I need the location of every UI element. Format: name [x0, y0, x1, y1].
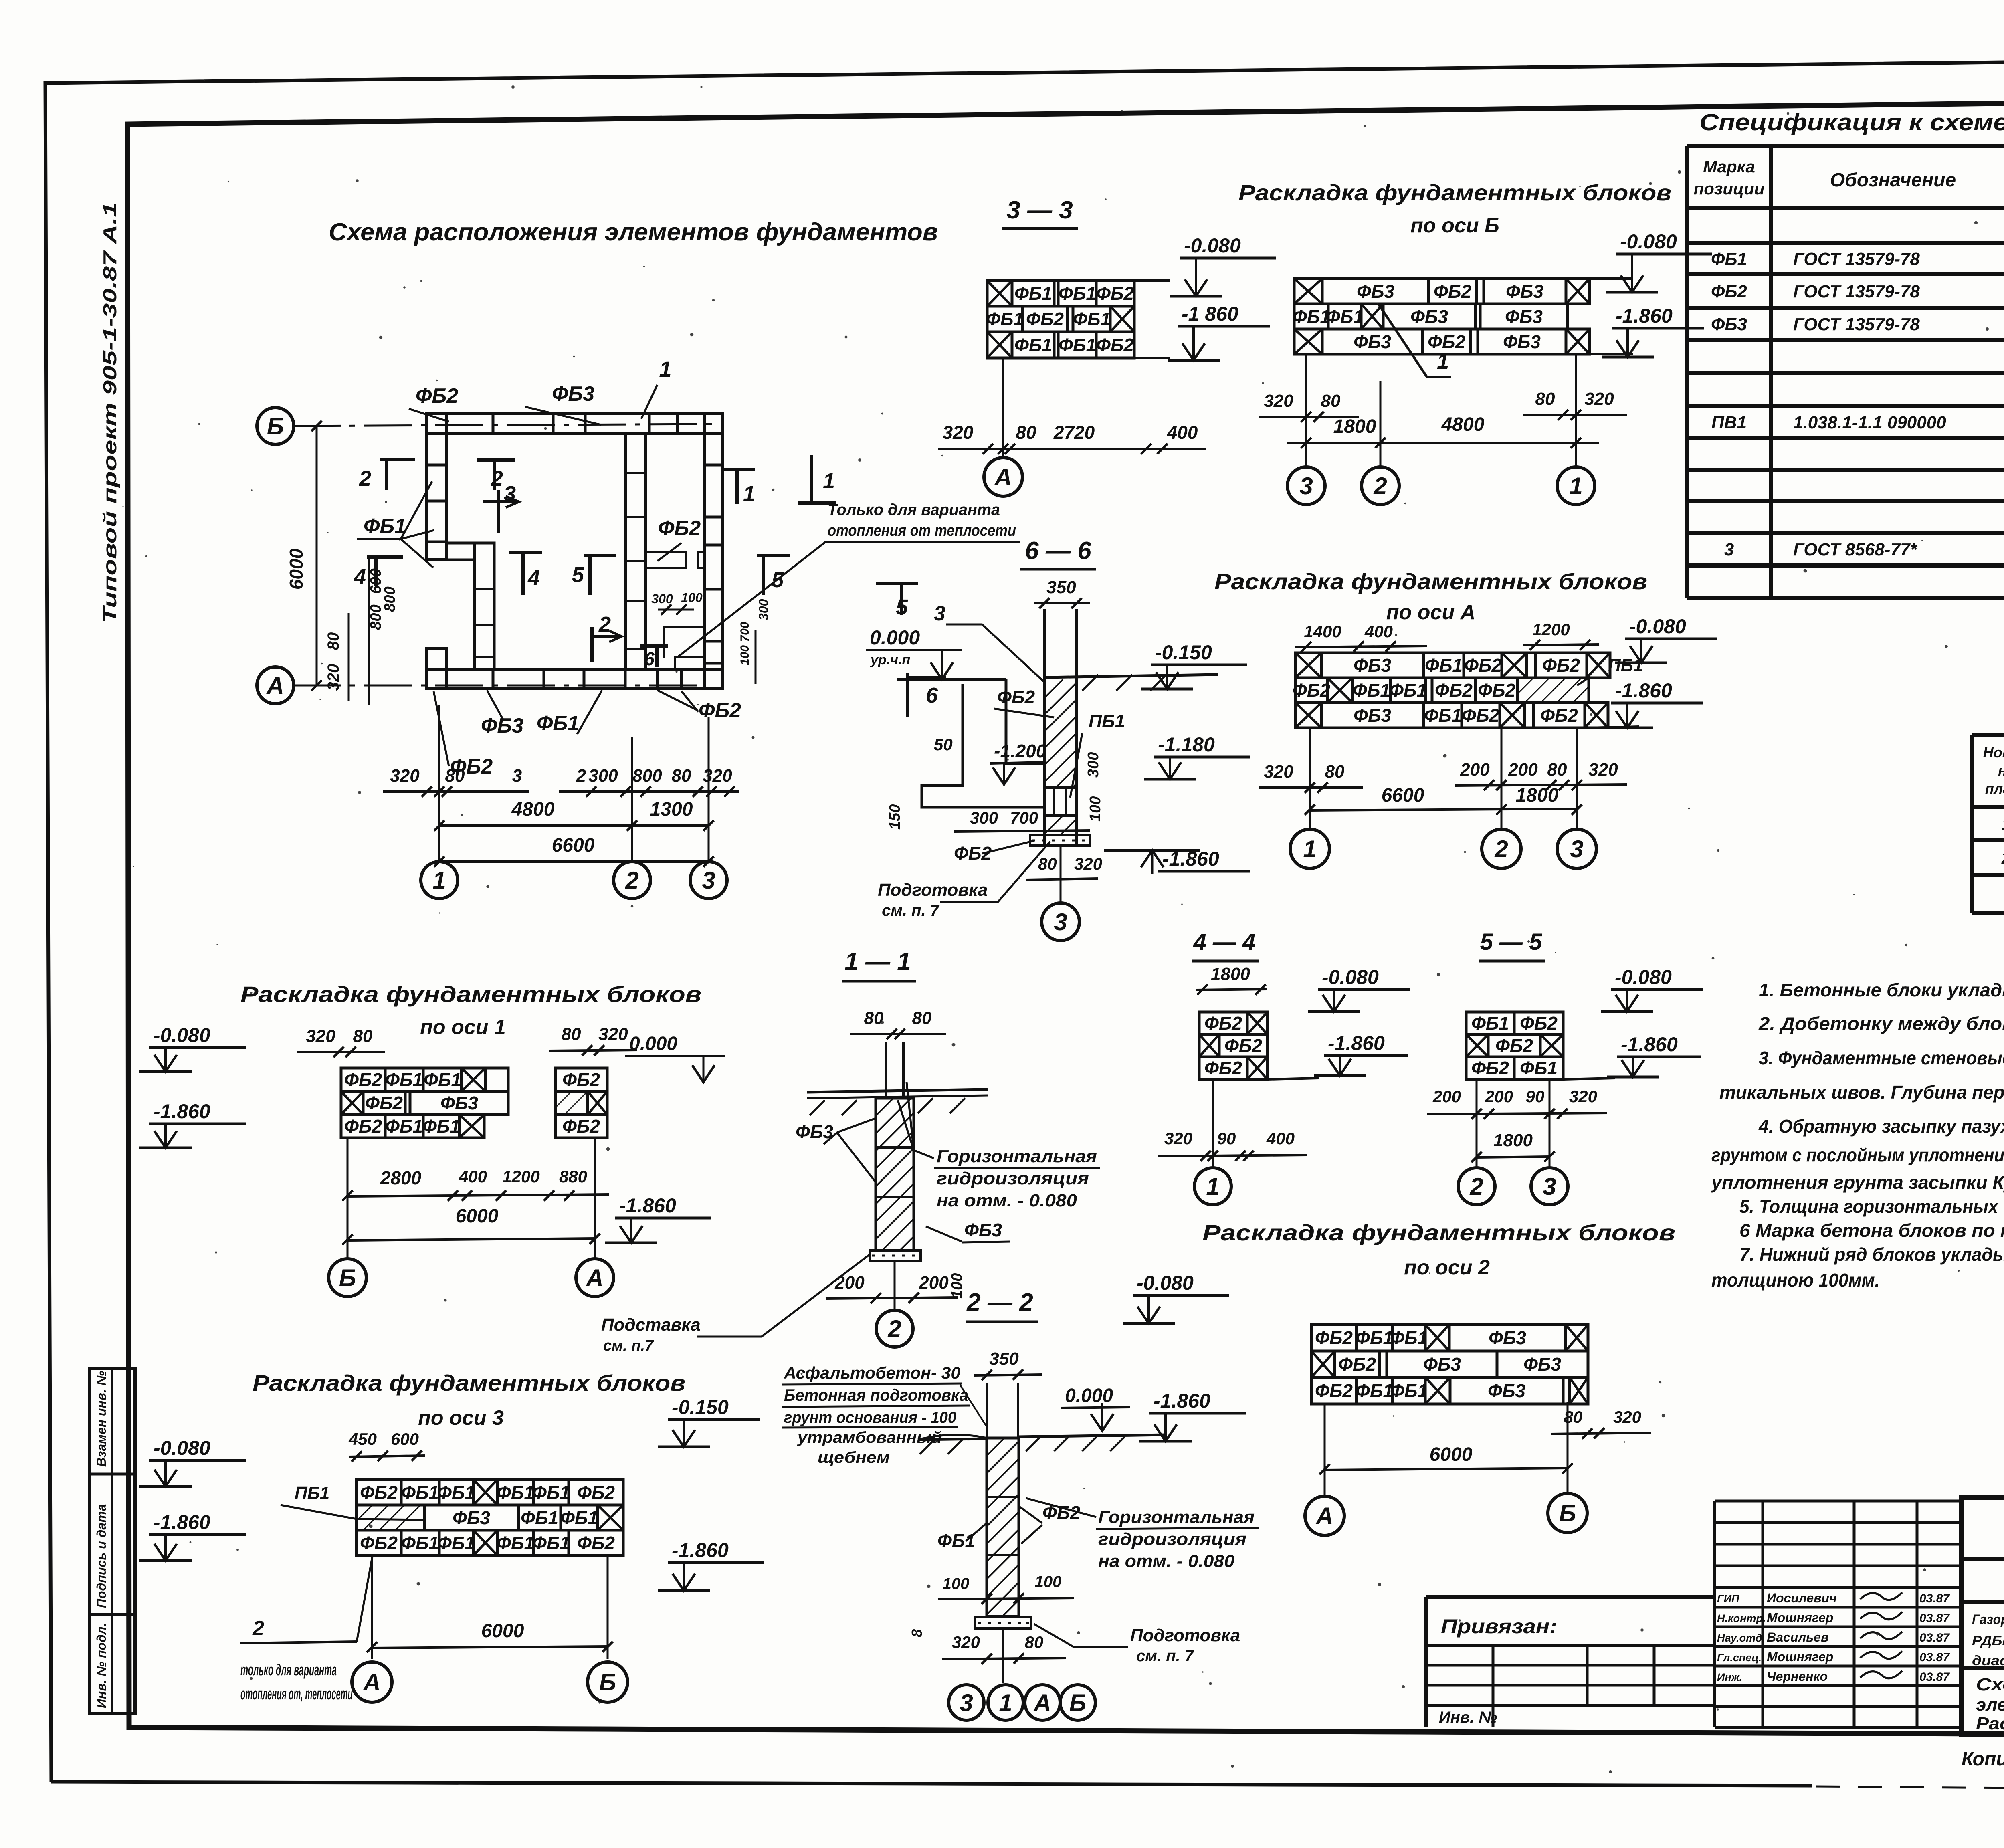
svg-text:Б: Б [267, 413, 284, 440]
svg-text:ФБ1: ФБ1 [437, 1482, 475, 1503]
svg-text:ФБ1: ФБ1 [937, 1530, 975, 1551]
svg-text:300: 300 [970, 808, 998, 827]
svg-text:2: 2 [252, 1617, 264, 1640]
svg-text:2: 2 [491, 467, 503, 491]
svg-text:ФБ2: ФБ2 [1315, 1380, 1353, 1401]
svg-text:1.038.1-1.1 090000: 1.038.1-1.1 090000 [1793, 413, 1946, 432]
svg-text:ФБ1: ФБ1 [1059, 335, 1096, 355]
svg-text:ФБ2: ФБ2 [360, 1482, 398, 1503]
svg-text:ФБ1: ФБ1 [1356, 1380, 1393, 1401]
svg-text:2 — 2: 2 — 2 [966, 1289, 1033, 1316]
svg-text:на отм. - 0.080: на отм. - 0.080 [937, 1191, 1077, 1210]
svg-text:ФБ2: ФБ2 [1434, 281, 1471, 302]
svg-text:Подготовка: Подготовка [878, 880, 988, 900]
svg-text:1: 1 [999, 1689, 1012, 1716]
svg-text:ФБ2: ФБ2 [658, 517, 701, 540]
svg-text:600: 600 [391, 1430, 419, 1448]
svg-text:320: 320 [325, 664, 342, 691]
svg-text:200: 200 [1432, 1087, 1461, 1106]
svg-text:Раскладка фундаментных блоков: Раскладка фундаментных блоков [1214, 569, 1647, 594]
svg-text:3: 3 [1299, 473, 1313, 499]
svg-text:80: 80 [1535, 389, 1555, 409]
svg-text:ФБ2: ФБ2 [562, 1069, 600, 1090]
svg-text:03.87: 03.87 [1919, 1631, 1950, 1644]
svg-text:-1.860: -1.860 [1154, 1390, 1210, 1412]
svg-text:Б: Б [1069, 1689, 1086, 1716]
svg-text:см. п. 7: см. п. 7 [882, 902, 940, 919]
svg-text:Обозначение: Обозначение [1830, 170, 1956, 191]
svg-text:ФБ2: ФБ2 [1542, 655, 1580, 676]
svg-text:80: 80 [912, 1008, 932, 1028]
svg-text:Мошнягер: Мошнягер [1767, 1610, 1833, 1625]
svg-text:5 — 5: 5 — 5 [1480, 929, 1542, 955]
svg-text:ФБ2: ФБ2 [1096, 335, 1134, 355]
svg-text:ФБ3: ФБ3 [1505, 306, 1543, 327]
svg-text:1: 1 [432, 867, 446, 894]
svg-text:0.000: 0.000 [870, 626, 920, 649]
svg-text:ПБ1: ПБ1 [1608, 656, 1643, 675]
svg-text:100: 100 [1035, 1573, 1062, 1591]
svg-text:320: 320 [306, 1026, 335, 1046]
svg-text:ФБ3: ФБ3 [1354, 331, 1391, 352]
svg-text:РДБК-1-100 С учетом расхода га: РДБК-1-100 С учетом расхода газа [1972, 1633, 2004, 1648]
svg-text:Инв. № подл.: Инв. № подл. [94, 1623, 109, 1708]
svg-text:Раскладка фундаментных блоков: Раскладка фундаментных блоков [253, 1370, 685, 1396]
svg-text:3: 3 [1543, 1173, 1556, 1200]
svg-text:-1 860: -1 860 [1182, 303, 1238, 325]
svg-text:ФБ3: ФБ3 [1523, 1354, 1561, 1375]
svg-text:по оси Б: по оси Б [1410, 214, 1499, 237]
svg-text:3 — 3: 3 — 3 [1006, 196, 1073, 224]
svg-text:ФБ2: ФБ2 [344, 1116, 382, 1137]
svg-text:4: 4 [527, 566, 540, 590]
svg-text:80: 80 [445, 766, 465, 786]
svg-text:ФБ2: ФБ2 [1224, 1035, 1262, 1056]
svg-text:3: 3 [960, 1689, 973, 1716]
svg-text:6 Марка бетона блоков по моро: 6 Марка бетона блоков по морозостойкости… [1739, 1220, 2004, 1241]
svg-text:6000: 6000 [1430, 1444, 1473, 1465]
svg-text:ФБ2: ФБ2 [1204, 1058, 1242, 1079]
svg-text:320: 320 [1264, 762, 1293, 782]
svg-text:тикальных швов. Глубина перевя: тикальных швов. Глубина перевязки - не м… [1719, 1082, 2004, 1103]
svg-text:-0.080: -0.080 [154, 1437, 210, 1459]
svg-text:ФБ1: ФБ1 [1073, 309, 1111, 329]
svg-text:ФБ1: ФБ1 [401, 1533, 439, 1553]
svg-text:1: 1 [823, 469, 835, 493]
svg-text:ФБ1: ФБ1 [1389, 680, 1427, 701]
svg-text:5. Толщина горизонтальных швов: 5. Толщина горизонтальных швов должна бы… [1739, 1196, 2004, 1217]
svg-text:320: 320 [1074, 854, 1102, 873]
svg-text:ПБ1: ПБ1 [1089, 711, 1125, 731]
svg-text:ФБ3: ФБ3 [1489, 1327, 1526, 1348]
svg-text:ФБ3: ФБ3 [552, 382, 594, 406]
svg-text:ФБ1: ФБ1 [1425, 655, 1463, 676]
svg-text:отопления от, теплосети: отопления от, теплосети [240, 1685, 353, 1703]
svg-text:Марка: Марка [1703, 157, 1755, 176]
svg-text:Бетонная подготовка: Бетонная подготовка [784, 1385, 968, 1404]
svg-text:ФБ3: ФБ3 [1423, 1354, 1461, 1375]
svg-text:5: 5 [572, 563, 584, 587]
svg-text:2: 2 [1469, 1173, 1483, 1200]
svg-text:ФБ2: ФБ2 [1495, 1035, 1533, 1056]
svg-text:320: 320 [1569, 1087, 1597, 1106]
svg-text:2800: 2800 [380, 1167, 422, 1188]
svg-text:диафрагмой (стены панельные): диафрагмой (стены панельные) [1972, 1653, 2004, 1668]
svg-text:320: 320 [952, 1633, 980, 1652]
svg-text:320: 320 [390, 766, 420, 786]
svg-text:-0.080: -0.080 [154, 1024, 210, 1046]
svg-text:150: 150 [887, 804, 903, 830]
svg-text:3: 3 [934, 602, 945, 625]
svg-text:4. Обратную засыпку пазух фунд: 4. Обратную засыпку пазух фундаментов пр… [1758, 1116, 2004, 1137]
svg-text:2. Добетонку между блоками про: 2. Добетонку между блоками производить и… [1758, 1013, 2004, 1034]
svg-text:80: 80 [672, 766, 691, 786]
svg-text:ФБ3: ФБ3 [1354, 705, 1391, 726]
svg-text:по оси 1: по оси 1 [420, 1016, 506, 1039]
svg-text:ФБ1: ФБ1 [537, 712, 579, 735]
svg-text:-0.080: -0.080 [1322, 966, 1379, 988]
svg-text:1 — 1: 1 — 1 [844, 948, 911, 976]
svg-text:-1.860: -1.860 [154, 1100, 210, 1123]
svg-text:ур.ч.п: ур.ч.п [870, 652, 910, 668]
svg-text:Н.контр.: Н.контр. [1717, 1612, 1766, 1624]
svg-text:ФБ2: ФБ2 [577, 1533, 615, 1553]
svg-text:ГОСТ 13579-78: ГОСТ 13579-78 [1793, 282, 1920, 301]
svg-text:Спецификация к схеме расположе: Спецификация к схеме расположения фундам… [1699, 109, 2004, 135]
svg-text:ГОСТ 13579-78: ГОСТ 13579-78 [1793, 249, 1920, 269]
svg-text:-1.860: -1.860 [672, 1539, 729, 1561]
svg-text:по оси 3: по оси 3 [418, 1406, 504, 1430]
svg-text:элементов фундаментов: элементов фундаментов [1976, 1695, 2004, 1715]
svg-text:2: 2 [887, 1315, 901, 1342]
svg-text:ФБ1: ФБ1 [986, 309, 1024, 329]
svg-text:1200: 1200 [502, 1167, 539, 1186]
svg-text:300: 300 [651, 592, 673, 606]
svg-text:50: 50 [934, 735, 953, 754]
svg-text:Б: Б [1559, 1500, 1576, 1527]
svg-text:гидроизоляция: гидроизоляция [937, 1169, 1089, 1188]
svg-text:ФБ1: ФБ1 [1471, 1013, 1509, 1034]
svg-text:ФБ1: ФБ1 [560, 1507, 598, 1528]
svg-text:1800: 1800 [1493, 1131, 1533, 1150]
svg-text:80: 80 [353, 1026, 373, 1046]
svg-text:450: 450 [348, 1430, 377, 1448]
svg-text:200: 200 [834, 1273, 865, 1293]
svg-text:ФБ1: ФБ1 [1326, 306, 1364, 327]
svg-text:350: 350 [1046, 578, 1076, 597]
svg-text:Нау.отд.: Нау.отд. [1717, 1632, 1765, 1644]
svg-text:ФБ2: ФБ2 [1462, 705, 1499, 726]
svg-text:ФБ3: ФБ3 [1410, 306, 1448, 327]
svg-text:Васильев: Васильев [1767, 1630, 1828, 1644]
svg-text:1300: 1300 [650, 799, 693, 820]
svg-text:2: 2 [598, 612, 611, 636]
svg-text:-1.200: -1.200 [994, 741, 1046, 761]
svg-text:400: 400 [459, 1167, 487, 1186]
svg-text:А: А [362, 1669, 380, 1696]
svg-text:ФБ1: ФБ1 [1059, 283, 1096, 304]
svg-text:2: 2 [625, 867, 638, 894]
svg-text:ФБ1: ФБ1 [385, 1069, 423, 1090]
svg-text:Инв. №: Инв. № [1439, 1709, 1497, 1726]
svg-text:А: А [1315, 1503, 1333, 1529]
svg-text:350: 350 [989, 1349, 1019, 1369]
svg-text:8: 8 [909, 1629, 925, 1637]
svg-text:6000: 6000 [456, 1206, 499, 1227]
svg-text:800: 800 [382, 586, 398, 612]
svg-text:2720: 2720 [1053, 422, 1095, 443]
svg-text:Инж.: Инж. [1717, 1671, 1742, 1683]
svg-text:ФБ2: ФБ2 [1540, 705, 1578, 726]
svg-text:320: 320 [1264, 391, 1293, 411]
svg-text:ФБ2: ФБ2 [562, 1116, 600, 1137]
svg-text:320: 320 [1588, 760, 1618, 780]
svg-text:200: 200 [1460, 760, 1490, 780]
svg-text:ФБ1: ФБ1 [1014, 283, 1052, 304]
svg-text:ФБ3: ФБ3 [796, 1121, 833, 1142]
svg-text:А: А [266, 672, 284, 699]
svg-text:только для варианта: только для варианта [240, 1661, 337, 1679]
svg-text:300: 300 [756, 599, 771, 620]
svg-text:по оси А: по оси А [1386, 601, 1475, 624]
svg-text:-0.150: -0.150 [1155, 641, 1212, 664]
svg-text:200: 200 [1485, 1087, 1513, 1106]
svg-text:4: 4 [354, 565, 366, 589]
svg-text:ФБ3: ФБ3 [1488, 1380, 1525, 1401]
svg-text:ФБ2: ФБ2 [416, 384, 458, 408]
svg-text:1: 1 [1206, 1173, 1219, 1200]
svg-text:1. Бетонные блоки укладывать: 1. Бетонные блоки укладывать на цементно… [1759, 980, 2004, 1000]
svg-text:100: 100 [949, 1273, 966, 1299]
svg-text:ФБ2: ФБ2 [1471, 1058, 1509, 1079]
svg-text:ФБ2: ФБ2 [577, 1482, 615, 1503]
svg-text:-1.860: -1.860 [1328, 1032, 1385, 1054]
svg-text:Асфальтобетон- 30: Асфальтобетон- 30 [784, 1363, 960, 1382]
svg-text:100: 100 [1087, 796, 1104, 822]
svg-text:6000: 6000 [481, 1620, 524, 1642]
svg-text:-0.080: -0.080 [1615, 966, 1672, 988]
svg-text:ФБ3: ФБ3 [1506, 281, 1543, 302]
svg-text:ФБ2: ФБ2 [1096, 283, 1134, 304]
svg-text:ФБ2: ФБ2 [1464, 655, 1502, 676]
svg-text:6 — 6: 6 — 6 [1025, 537, 1091, 565]
svg-text:ФБ2: ФБ2 [1204, 1013, 1242, 1034]
svg-text:Номер: Номер [1983, 744, 2004, 761]
svg-text:ФБ1: ФБ1 [521, 1507, 558, 1528]
svg-text:на: на [1998, 762, 2004, 779]
svg-text:03.87: 03.87 [1919, 1651, 1950, 1664]
svg-text:100: 100 [943, 1575, 970, 1593]
svg-text:на отм. - 0.080: на отм. - 0.080 [1098, 1551, 1235, 1571]
svg-text:6600: 6600 [552, 835, 595, 856]
svg-text:1800: 1800 [1333, 416, 1376, 437]
svg-text:Горизонтальная: Горизонтальная [1098, 1507, 1255, 1527]
svg-text:03.87: 03.87 [1919, 1670, 1950, 1684]
svg-text:ФБ1: ФБ1 [424, 1069, 461, 1090]
svg-text:800: 800 [632, 766, 662, 786]
svg-text:Гл.спец.: Гл.спец. [1717, 1652, 1762, 1664]
svg-text:Раскладка фундаментных блоков: Раскладка фундаментных блоков [1238, 180, 1671, 205]
svg-text:ФБ2: ФБ2 [699, 699, 741, 722]
svg-text:1800: 1800 [1211, 964, 1250, 984]
svg-text:Мошнягер: Мошнягер [1767, 1650, 1833, 1664]
svg-text:ФБ2: ФБ2 [1338, 1354, 1376, 1375]
svg-text:90: 90 [1526, 1087, 1545, 1106]
svg-text:7. Нижний ряд блоков укладыват: 7. Нижний ряд блоков укладывать на уплот… [1739, 1244, 2004, 1265]
svg-text:-1.180: -1.180 [1158, 733, 1215, 756]
svg-text:3: 3 [1724, 540, 1734, 559]
svg-text:ФБ1: ФБ1 [532, 1533, 570, 1553]
svg-text:ПБ1: ПБ1 [295, 1483, 329, 1503]
svg-text:400: 400 [1266, 1129, 1295, 1148]
svg-text:1200: 1200 [1532, 620, 1570, 639]
svg-text:320: 320 [1613, 1408, 1641, 1426]
svg-text:Черненко: Черненко [1767, 1669, 1828, 1684]
svg-text:4 — 4: 4 — 4 [1193, 929, 1256, 955]
svg-text:1400: 1400 [1304, 622, 1341, 641]
svg-text:-1.860: -1.860 [1616, 305, 1673, 327]
svg-text:2: 2 [1373, 473, 1387, 499]
svg-text:ФБ1: ФБ1 [401, 1482, 439, 1503]
svg-text:Подпись и дата: Подпись и дата [94, 1504, 109, 1608]
svg-text:-0.080: -0.080 [1184, 234, 1241, 257]
svg-text:1: 1 [743, 482, 755, 506]
svg-text:ФБ2: ФБ2 [1026, 309, 1064, 329]
svg-text:утрамбованный: утрамбованный [797, 1429, 942, 1446]
svg-text:200: 200 [1508, 760, 1538, 780]
svg-text:ФБ1: ФБ1 [1356, 1327, 1393, 1348]
svg-text:Горизонтальная: Горизонтальная [937, 1147, 1097, 1166]
svg-text:Привязан:: Привязан: [1441, 1615, 1557, 1638]
svg-text:ФБ1: ФБ1 [1014, 335, 1052, 355]
svg-text:гидроизоляция: гидроизоляция [1098, 1529, 1246, 1549]
svg-text:ГОСТ 8568-77*: ГОСТ 8568-77* [1793, 540, 1917, 559]
svg-text:300: 300 [588, 766, 618, 786]
svg-text:-1.860: -1.860 [1162, 848, 1219, 870]
svg-text:-0.150: -0.150 [672, 1396, 729, 1418]
svg-text:ФБ1: ФБ1 [497, 1482, 534, 1503]
svg-text:-1.860: -1.860 [1615, 679, 1672, 702]
svg-text:90: 90 [1217, 1129, 1236, 1148]
svg-text:А: А [994, 464, 1012, 491]
svg-text:80: 80 [1016, 422, 1036, 443]
svg-text:2: 2 [2001, 848, 2004, 868]
svg-text:320: 320 [943, 422, 974, 443]
svg-text:100 700: 100 700 [738, 622, 751, 665]
svg-text:1800: 1800 [1516, 785, 1559, 806]
svg-text:1: 1 [1569, 473, 1582, 499]
svg-text:ФБ2: ФБ2 [360, 1533, 398, 1553]
svg-text:Только для варианта: Только для варианта [828, 501, 1000, 519]
svg-text:Раскладка фундаментных блоков: Раскладка фундаментных блоков [240, 982, 701, 1007]
svg-text:6000: 6000 [286, 548, 307, 590]
svg-text:1: 1 [1303, 836, 1316, 862]
svg-text:толщиною 100мм.: толщиною 100мм. [1711, 1270, 1880, 1291]
svg-text:Типовой проект 905-1-30.87 А.: Типовой проект 905-1-30.87 А.1 [99, 202, 120, 623]
svg-text:Газорегуляторный пункт с регул: Газорегуляторный пункт с регулятором [1972, 1612, 2004, 1627]
svg-text:Копировал: Радец: Копировал: Радец [1962, 1749, 2004, 1770]
svg-text:Подготовка: Подготовка [1130, 1626, 1240, 1645]
svg-text:2: 2 [359, 467, 371, 491]
svg-text:ФБ1: ФБ1 [1424, 705, 1462, 726]
svg-text:ФБ1: ФБ1 [1293, 306, 1330, 327]
svg-text:320: 320 [703, 766, 732, 786]
svg-text:ФБ2: ФБ2 [1315, 1327, 1353, 1348]
svg-text:Б: Б [339, 1264, 356, 1291]
svg-text:Иосилевич: Иосилевич [1767, 1591, 1837, 1605]
svg-text:-1.860: -1.860 [1621, 1033, 1678, 1056]
svg-text:4800: 4800 [511, 799, 555, 820]
svg-text:ФБ2: ФБ2 [1478, 680, 1515, 701]
svg-text:по оси 2: по оси 2 [1404, 1256, 1490, 1279]
svg-text:Подставка: Подставка [601, 1315, 701, 1335]
svg-text:1: 1 [1437, 349, 1449, 374]
svg-text:Б: Б [599, 1669, 616, 1696]
svg-text:А: А [585, 1264, 603, 1291]
svg-text:ФБ3: ФБ3 [453, 1507, 490, 1528]
svg-text:320: 320 [1164, 1129, 1192, 1148]
svg-text:Схема расположения: Схема расположения [1976, 1675, 2004, 1695]
svg-text:ФБ2: ФБ2 [1711, 282, 1747, 301]
svg-text:ФБ3: ФБ3 [1354, 655, 1391, 676]
svg-text:6: 6 [644, 648, 655, 669]
svg-text:ФБ2: ФБ2 [997, 687, 1035, 707]
svg-text:2: 2 [576, 766, 586, 786]
svg-text:880: 880 [559, 1167, 587, 1186]
svg-text:уплотнения грунта засыпки Ку =: уплотнения грунта засыпки Ку = 0.95 [1711, 1172, 2004, 1193]
svg-text:ФБ2: ФБ2 [344, 1069, 382, 1090]
svg-text:см. п. 7: см. п. 7 [1136, 1647, 1194, 1665]
svg-text:ФБ1: ФБ1 [1353, 680, 1390, 701]
svg-text:6: 6 [926, 683, 938, 707]
svg-text:позиции: позиции [1694, 179, 1765, 198]
svg-text:3: 3 [702, 867, 715, 894]
svg-text:3. Фундаментные стеновые блоки: 3. Фундаментные стеновые блоки должны ук… [1759, 1048, 2004, 1068]
svg-text:400: 400 [1167, 422, 1198, 443]
svg-text:ПВ1: ПВ1 [1711, 413, 1747, 432]
svg-text:1: 1 [659, 356, 671, 382]
svg-text:ФБ2: ФБ2 [1042, 1502, 1080, 1523]
svg-text:700: 700 [1010, 808, 1038, 827]
svg-text:-0.080: -0.080 [1629, 615, 1686, 638]
svg-text:ФБ1: ФБ1 [385, 1116, 423, 1137]
svg-text:Взамен инв. №: Взамен инв. № [94, 1371, 109, 1467]
svg-text:ФБ2: ФБ2 [365, 1093, 403, 1113]
svg-text:320: 320 [598, 1024, 628, 1044]
svg-text:ФБ2: ФБ2 [1520, 1013, 1558, 1034]
svg-text:отопления от теплосети: отопления от теплосети [828, 522, 1016, 539]
svg-text:щебнем: щебнем [818, 1449, 890, 1466]
svg-text:400: 400 [1364, 622, 1393, 641]
svg-text:ФБ2: ФБ2 [1435, 680, 1473, 701]
svg-text:-1.860: -1.860 [619, 1194, 676, 1217]
svg-text:100: 100 [681, 590, 703, 605]
svg-text:03.87: 03.87 [1919, 1612, 1950, 1625]
svg-text:03.87: 03.87 [1919, 1592, 1950, 1605]
svg-text:2: 2 [1494, 836, 1508, 862]
svg-text:80: 80 [562, 1024, 581, 1044]
svg-text:ФБ1: ФБ1 [1520, 1058, 1558, 1079]
svg-text:ФБ1: ФБ1 [532, 1482, 570, 1503]
svg-text:80: 80 [1321, 391, 1341, 411]
svg-text:ФБ1: ФБ1 [1711, 249, 1747, 269]
svg-text:80: 80 [325, 632, 342, 650]
svg-text:0.000: 0.000 [1065, 1385, 1113, 1406]
svg-text:ФБ3: ФБ3 [964, 1220, 1002, 1240]
svg-text:-0.080: -0.080 [1620, 230, 1677, 253]
svg-text:грунтом с послойным уплотнение: грунтом с послойным уплотнением слоями т… [1711, 1145, 2004, 1165]
svg-text:грунт основания - 100: грунт основания - 100 [784, 1409, 956, 1426]
